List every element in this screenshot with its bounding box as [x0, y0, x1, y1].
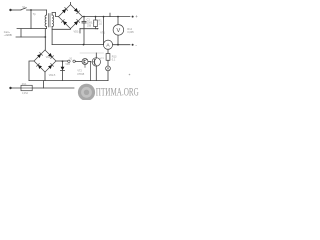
- svg-text:Тр: Тр: [33, 12, 36, 16]
- bridge rectifier VD1 diamond: [59, 5, 83, 29]
- resistor R1 box: [95, 17, 97, 20]
- diode VD1d: [74, 20, 80, 26]
- svg-text:S1: S1: [22, 5, 26, 9]
- svg-text:КТ815: КТ815: [77, 73, 85, 76]
- svg-text:VD2-5: VD2-5: [49, 75, 56, 77]
- wire rail to bus: [103, 17, 105, 45]
- transistor VT1: [92, 58, 100, 66]
- wire drop to bottom bus: [43, 81, 45, 88]
- svg-text:VD5: VD5: [65, 64, 70, 66]
- svg-text:1,0: 1,0: [98, 23, 102, 26]
- bridge rectifier VD2 diamond: [34, 50, 56, 72]
- bus negative: [52, 44, 103, 46]
- switch S1: [21, 8, 26, 10]
- node junction: [44, 36, 46, 38]
- wire lower mid bus: [29, 80, 108, 82]
- diode VD2c: [37, 64, 42, 69]
- mains plug symbol: [20, 29, 22, 37]
- shunt resistor: [107, 49, 109, 53]
- svg-text:ПТИМА.ORG: ПТИМА.ORG: [96, 85, 139, 98]
- svg-text:A: A: [106, 43, 110, 49]
- svg-text:-: -: [135, 42, 137, 47]
- fuse FU1: [21, 85, 32, 90]
- node input terminal top: [9, 9, 11, 11]
- wire bridge2 right: [56, 60, 68, 62]
- diode VD1a: [62, 8, 68, 14]
- svg-text:X1: X1: [69, 59, 73, 61]
- wire bridge2 bottom: [44, 72, 46, 81]
- transistor VT2: [82, 59, 88, 65]
- wire: [74, 60, 76, 62]
- transformer T1 secondary: [52, 15, 53, 27]
- wire stub: [79, 29, 81, 33]
- svg-text:FU1: FU1: [22, 83, 27, 86]
- node: [103, 16, 105, 18]
- wire faint: [80, 52, 104, 54]
- transformer T1 core: [48, 14, 50, 27]
- voltmeter PV1: [113, 25, 124, 36]
- wire + rail: [83, 16, 131, 18]
- connector X1: [68, 60, 70, 62]
- svg-text:VD6: VD6: [46, 57, 51, 59]
- diode VD1c: [61, 20, 67, 26]
- wire primary bottom: [46, 27, 48, 29]
- wire bottom bus: [12, 87, 75, 89]
- zener VD5: [62, 61, 64, 66]
- wire: [30, 10, 32, 29]
- wire: [113, 44, 130, 46]
- svg-text:0,005: 0,005: [127, 31, 134, 34]
- node: [117, 44, 119, 46]
- node junction on mains wire: [30, 9, 32, 11]
- svg-text:V: V: [117, 28, 121, 34]
- svg-text:0,1: 0,1: [112, 59, 116, 62]
- wire to lower bridge: [44, 29, 46, 50]
- wire mains lower: [17, 28, 47, 30]
- svg-text:25В: 25В: [87, 25, 92, 28]
- node: [83, 44, 85, 46]
- wire VT2 to bottom: [90, 62, 92, 81]
- voltmeter branch: [117, 17, 119, 25]
- node output plus terminal: [132, 16, 134, 18]
- svg-text:VT2: VT2: [100, 58, 105, 60]
- node faint: [129, 74, 131, 76]
- diode VD2a: [37, 53, 42, 58]
- wire: [27, 9, 47, 11]
- node: [62, 60, 64, 62]
- wiper arrow: [97, 28, 99, 30]
- transformer T1 primary: [45, 15, 46, 27]
- wire mid line: [80, 28, 97, 30]
- capacitor C1: [83, 17, 85, 22]
- svg-text:0,25А: 0,25А: [22, 92, 28, 95]
- svg-text:VD1-4: VD1-4: [74, 31, 82, 34]
- svg-text:VT1: VT1: [100, 32, 105, 35]
- node: [83, 16, 85, 18]
- node bottom terminal: [9, 87, 11, 89]
- svg-text:~220В: ~220В: [4, 33, 12, 37]
- node output minus terminal: [132, 44, 134, 46]
- node: [95, 16, 97, 18]
- wire stub: [109, 13, 111, 16]
- diode VD2d: [48, 64, 53, 69]
- diode VD2b: [48, 53, 53, 58]
- wire: [16, 36, 45, 38]
- wire: [12, 9, 22, 11]
- wire bridge2 left: [29, 61, 34, 81]
- svg-text:+: +: [135, 14, 138, 19]
- wire secondary top: [52, 13, 58, 17]
- wire secondary bottom: [51, 27, 53, 45]
- ammeter PA1: [103, 40, 112, 49]
- wire: [46, 10, 48, 15]
- diode VD1b: [74, 8, 80, 14]
- wire stub bridge top: [70, 2, 72, 4]
- node: [117, 16, 119, 18]
- watermark disc: [78, 84, 95, 101]
- lamp HL1: [106, 66, 111, 71]
- wire AC to bridge bottom: [52, 28, 70, 31]
